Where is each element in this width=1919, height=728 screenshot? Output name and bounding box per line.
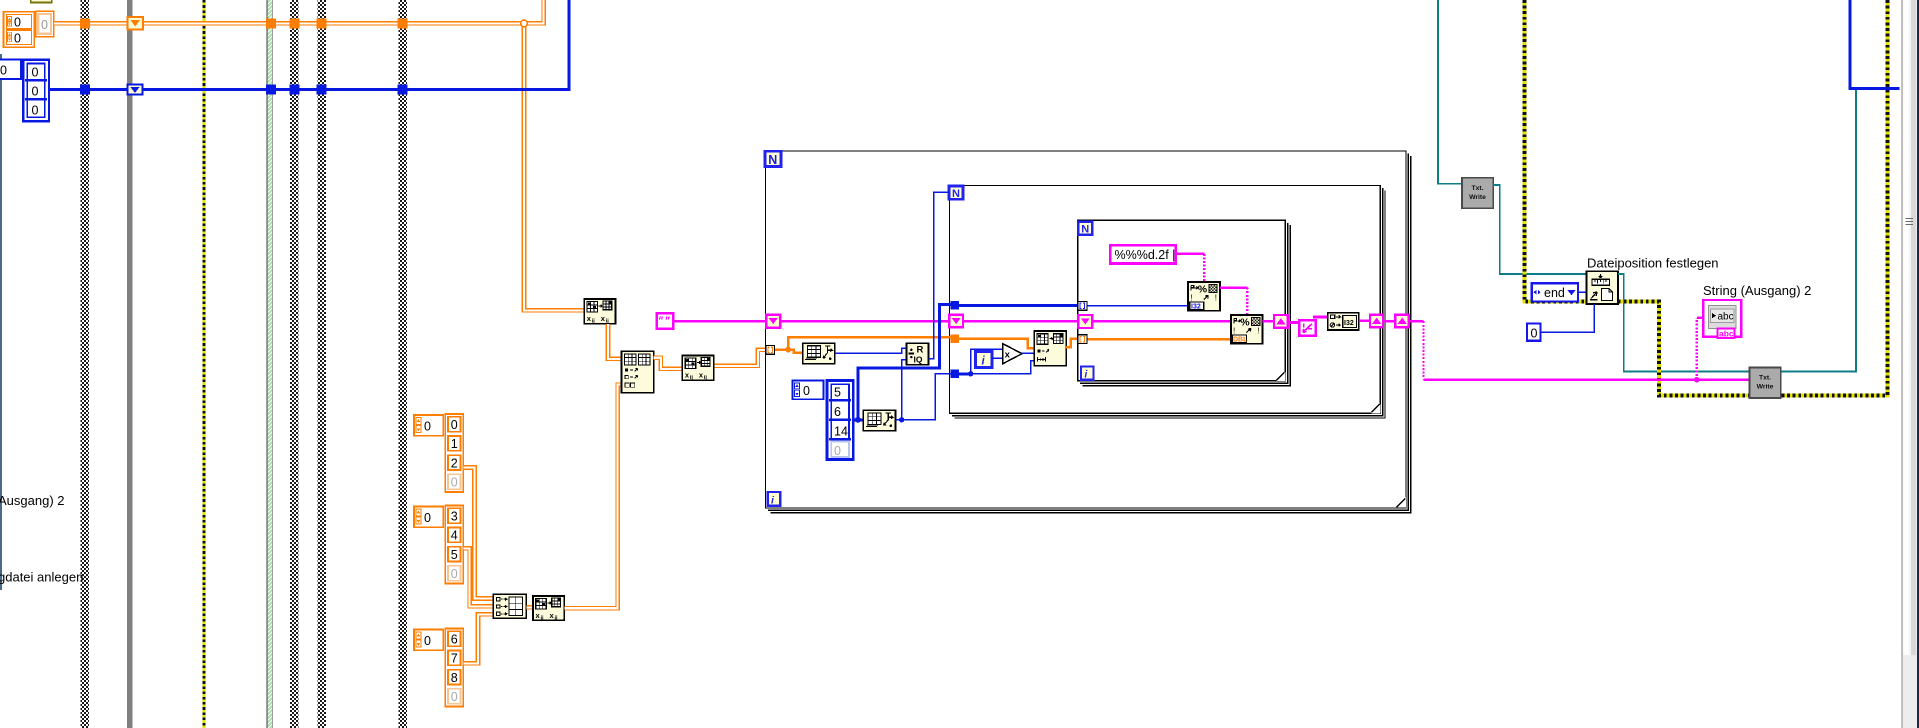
orange array group3 cells 6 7 8 0 <box>445 629 463 707</box>
svg-text:ij: ij <box>555 616 559 622</box>
svg-text:String (Ausgang) 2: String (Ausgang) 2 <box>1703 283 1811 298</box>
svg-text:Write: Write <box>1469 194 1486 201</box>
svg-text:ij: ij <box>541 616 545 622</box>
wire orange middle to rotate node <box>959 339 1034 349</box>
svg-text:I32: I32 <box>1191 304 1201 311</box>
for loop inner dog-ear <box>1277 372 1285 380</box>
svg-text:IQ: IQ <box>914 355 923 365</box>
wire teal SetFilePos down to TxtWrite lower <box>1618 90 1856 372</box>
wire pink inner segment <box>1092 320 1231 323</box>
wire pink middle loop segment <box>963 320 1078 323</box>
sequence border bar E (checker) <box>398 0 407 728</box>
shift register pink inner right <box>1274 315 1288 328</box>
shift register pink middle left <box>949 315 963 328</box>
scrollbar track <box>1902 0 1917 728</box>
junction dot blue 2 <box>899 417 904 422</box>
wire orange rotate node to inner tunnel <box>1066 339 1078 348</box>
junction dot blue <box>855 417 861 423</box>
wire blue reshape to quotient <box>835 348 907 353</box>
wire blue junction up to multiply input <box>971 349 1003 374</box>
svg-text:%%%d.2f |: %%%d.2f | <box>1115 248 1176 262</box>
svg-text:0: 0 <box>0 64 7 78</box>
interleave node <box>533 596 564 622</box>
tunnel blue inner <box>1078 302 1087 311</box>
green hatched structure bar <box>266 0 272 728</box>
svg-text:0: 0 <box>32 104 39 118</box>
window edge navy <box>1917 0 1919 728</box>
shift register orange on gray bar <box>127 17 143 30</box>
svg-text:abc: abc <box>1719 329 1734 339</box>
svg-text:0: 0 <box>41 18 48 32</box>
svg-text:Txt.: Txt. <box>1759 375 1771 382</box>
svg-text:6: 6 <box>834 405 841 419</box>
multiply node <box>1003 344 1022 364</box>
empty string constant <box>657 313 674 328</box>
interpolate node 3 <box>682 356 713 382</box>
junction dot blue middle <box>968 371 973 376</box>
wire pink trim to scan node <box>1313 316 1328 319</box>
scrollbar grip <box>1906 219 1914 225</box>
svg-text:N: N <box>952 188 960 200</box>
enum constant end <box>1532 283 1578 301</box>
svg-text:0: 0 <box>1531 326 1538 340</box>
string constant %%%d.2f <box>1110 245 1175 263</box>
orange array group1 index <box>414 415 443 436</box>
wire blue 0 to SetFilePos offset <box>1541 304 1595 332</box>
wire string constant to outer shift register <box>673 320 766 323</box>
svg-text:0: 0 <box>32 85 39 99</box>
interpolate node 1 <box>584 299 615 325</box>
svg-text:Ausgang) 2: Ausgang) 2 <box>0 493 65 508</box>
shift register pink middle right <box>1370 315 1383 328</box>
wire pink string main (outer loop) <box>780 320 949 323</box>
svg-text:8: 8 <box>451 671 458 685</box>
svg-text:Dateiposition festlegen: Dateiposition festlegen <box>1587 256 1719 271</box>
wire array3 to build array <box>463 614 493 663</box>
blue array constant 5 6 14 index <box>793 381 824 400</box>
junction dot orange <box>785 347 791 353</box>
svg-text:N: N <box>1081 223 1089 235</box>
quotient remainder node <box>906 343 928 364</box>
build array node <box>493 594 526 618</box>
for loop outer N badge <box>765 151 781 167</box>
wire node1 to index node <box>608 324 622 359</box>
cluster constant 2x0 <box>4 12 35 47</box>
format into string node DBL <box>1231 315 1263 344</box>
wire blue i to multiply <box>992 357 1003 359</box>
format into string node I32 <box>1188 282 1220 311</box>
orange array group1 cells 0 1 2 0 <box>445 414 463 492</box>
index array node (tall) <box>622 351 654 392</box>
svg-text:0: 0 <box>451 418 458 432</box>
blue tunnels on bars <box>80 84 90 94</box>
svg-text:5: 5 <box>834 386 841 400</box>
junction ring on orange wire <box>521 20 528 27</box>
junction dot pink <box>1694 377 1699 382</box>
wire blue thick middle to inner tunnel <box>959 304 1078 307</box>
svg-text:14: 14 <box>834 425 848 439</box>
for loop middle border <box>950 186 1386 419</box>
svg-text:0: 0 <box>834 444 841 458</box>
tunnel orange middle <box>950 334 959 343</box>
wire error dashed left vertical <box>1524 0 1586 301</box>
wire blue top right corner <box>1848 0 1899 88</box>
wire blue multiply to rotate node <box>1022 352 1034 354</box>
wire blue vertical to quotient lower input <box>902 360 907 420</box>
blue array constant top-left cells <box>23 60 49 122</box>
wire index node to interpolate node 3 <box>654 358 683 369</box>
wire node3 to for-loop tunnel <box>714 350 765 366</box>
wire blue thin inner loop <box>1087 305 1188 307</box>
scan from string node <box>1328 313 1359 330</box>
wire orange vertical from junction down to interp node <box>524 21 584 310</box>
svg-text:Write: Write <box>1757 384 1774 391</box>
wire pink node DBL to inner right SR <box>1263 320 1275 323</box>
shift register pink outer left <box>766 315 780 328</box>
string indicator abc <box>1703 300 1741 339</box>
svg-text:0: 0 <box>14 31 21 45</box>
svg-text:5: 5 <box>451 548 458 562</box>
wire teal upper TxtWrite to SetFilePos <box>1493 185 1586 274</box>
wire orange branch up into middle loop tunnel <box>788 337 950 349</box>
for loop inner border <box>1078 220 1290 385</box>
svg-text:0: 0 <box>451 690 458 704</box>
for loop middle i badge <box>976 351 992 367</box>
tunnel blue middle lower <box>950 369 959 378</box>
orange tunnels on bars <box>80 18 90 28</box>
wire orange 1D-array top (double line) <box>54 0 544 23</box>
wire blue 1D-array top (thick) <box>49 0 569 89</box>
wire pink lower horizontal to TxtWrite <box>1423 378 1750 381</box>
tunnel orange inner <box>1078 335 1087 344</box>
wire blue thick array to size node <box>853 418 863 421</box>
wire pink inner SR to trim node <box>1288 321 1299 324</box>
sequence border bar A (checker) <box>80 0 89 728</box>
orange array group2 cells 3 4 5 0 <box>445 506 463 584</box>
svg-text:0: 0 <box>424 420 431 434</box>
wire build array to interleave <box>526 605 533 610</box>
sequence border bar D (checker) <box>317 0 326 728</box>
gray structure bar <box>127 0 133 728</box>
svg-text:0: 0 <box>451 567 458 581</box>
Txt Write node upper <box>1462 178 1493 209</box>
svg-text:0: 0 <box>14 16 21 30</box>
trim whitespace node <box>1299 320 1315 335</box>
svg-text:N: N <box>768 153 777 167</box>
svg-text:gdatei anlegen: gdatei anlegen <box>0 570 83 585</box>
wire interleave up to index node <box>564 385 621 609</box>
svg-text:I32: I32 <box>1344 320 1354 327</box>
svg-text:2: 2 <box>451 456 458 470</box>
wire array2 to build array <box>463 548 493 606</box>
svg-text:x: x <box>1005 350 1011 361</box>
shift register blue on gray bar <box>127 84 142 94</box>
wire blue junction right to rotate lower input <box>971 361 1035 374</box>
grayed numeric constant 0 <box>36 11 54 36</box>
svg-text:0: 0 <box>32 66 39 80</box>
for loop outer border <box>766 151 1411 513</box>
wire blue quotient to middle N terminal <box>928 192 949 358</box>
wire orange from tunnel to junction and reshape node <box>774 350 802 353</box>
wire array1 to build array <box>463 468 493 599</box>
wire error SetFilePos to TxtWrite lower <box>1618 0 1888 395</box>
array size node lower <box>863 410 895 431</box>
svg-text:4: 4 <box>451 529 458 543</box>
wire pink scan node to middle SR <box>1359 319 1370 322</box>
wire orange inner segment <box>1087 338 1231 341</box>
svg-text:0: 0 <box>803 384 810 398</box>
svg-text:6: 6 <box>451 633 458 647</box>
yellow-black dashed structure line <box>203 0 206 728</box>
tunnel orange outer left <box>766 346 775 355</box>
wire blue size node to lower middle tunnel <box>896 374 951 420</box>
svg-text:DBL: DBL <box>1233 337 1248 344</box>
svg-text:3: 3 <box>451 510 458 524</box>
svg-text:7: 7 <box>451 652 458 666</box>
rotate array node <box>1034 331 1066 366</box>
olive enum fragment top <box>31 0 52 3</box>
shift register pink inner left <box>1078 315 1092 328</box>
for loop inner i badge <box>1081 367 1094 381</box>
for loop inner N badge <box>1078 222 1092 236</box>
for loop middle N badge <box>949 186 963 200</box>
sequence border bar C (checker) <box>290 0 299 728</box>
Txt Write node lower <box>1750 368 1781 399</box>
for loop outer dog-ear <box>1397 499 1406 508</box>
svg-text:0: 0 <box>424 634 431 648</box>
orange array group2 index <box>414 507 443 528</box>
svg-text:1: 1 <box>451 437 458 451</box>
wire pink format string to node <box>1176 254 1205 282</box>
set file position node <box>1587 271 1618 304</box>
wire teal refnum top <box>1438 0 1462 184</box>
left structure edge line <box>0 54 2 590</box>
wire blue thick lower tunnel to junction <box>959 372 970 375</box>
wire blue thick array up into middle loop <box>858 305 951 420</box>
svg-text:Txt.: Txt. <box>1471 185 1483 192</box>
blue array constant top-left index <box>0 60 21 79</box>
wire pink node I32 to node DBL <box>1220 288 1247 316</box>
tunnel blue middle top <box>950 301 959 310</box>
shift register pink outer right <box>1395 315 1408 328</box>
for loop outer i badge <box>768 492 781 507</box>
wire pink middle SR to outer SR <box>1383 320 1395 323</box>
svg-text:0: 0 <box>451 476 458 490</box>
wire blue enum to SetFilePos <box>1578 291 1587 293</box>
svg-text:0: 0 <box>424 511 431 525</box>
svg-text:end: end <box>1544 286 1565 300</box>
reshape array node upper <box>803 343 835 364</box>
wire pink branch up to string indicator <box>1696 318 1698 380</box>
orange array group3 index <box>414 630 443 651</box>
for loop middle dog-ear <box>1371 404 1379 412</box>
blue constant 0 right <box>1527 324 1541 341</box>
blue array constant 5 6 14 cells <box>827 381 853 460</box>
svg-text:abc: abc <box>1718 312 1734 323</box>
wire pink outer SR to right area <box>1409 321 1424 380</box>
